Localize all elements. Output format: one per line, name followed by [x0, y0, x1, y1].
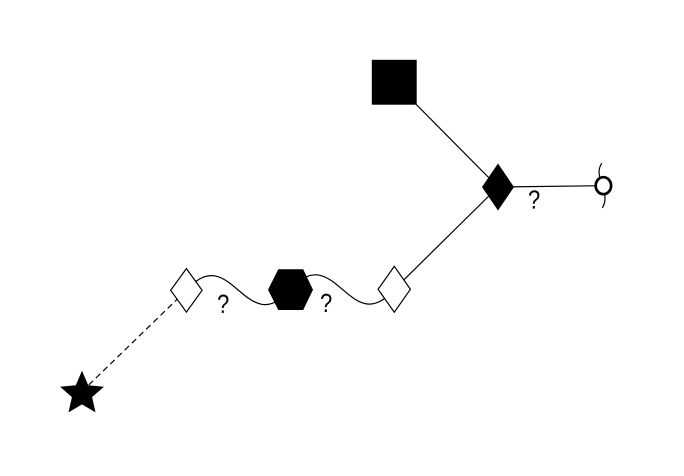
dashed wire left open diamond to star — [82, 290, 186, 391]
node: filled hexagon — [268, 269, 313, 310]
wavy wire hexagon to right open diamond — [291, 275, 395, 304]
node: filled diamond — [482, 164, 514, 211]
node: left open diamond — [171, 269, 202, 313]
label ? near left diamond — [218, 295, 228, 313]
node: right open diamond — [378, 266, 410, 312]
wire square to filled diamond — [395, 83, 499, 188]
squiggle through reducing-end circle — [599, 163, 605, 208]
wire filled diamond to right open diamond — [394, 187, 498, 289]
node: filled star — [60, 371, 104, 413]
wire filled diamond to circle (reducing end) — [498, 186, 603, 187]
wavy wire left open diamond to hexagon — [186, 276, 290, 305]
node: filled square — [372, 60, 417, 105]
node: reducing-end circle — [596, 177, 611, 194]
label ? near hexagon — [321, 294, 331, 312]
label ? near filled diamond — [529, 190, 539, 208]
